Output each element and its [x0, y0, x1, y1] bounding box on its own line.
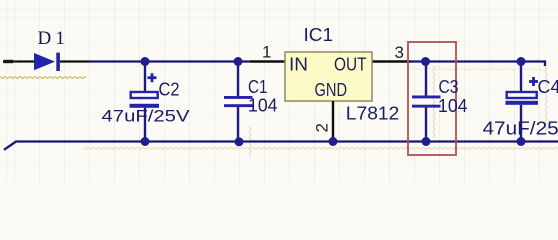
IC1 pin 2 (GND)	[332, 101, 334, 142]
capacitor C2 negative plate	[130, 104, 160, 108]
capacitor C3 bottom lead	[425, 108, 427, 142]
wavy ERC mark vertical near C3	[432, 66, 436, 138]
capacitor C4 top lead	[520, 62, 522, 92]
regulator IC1 body	[285, 52, 372, 101]
svg-text:C1: C1	[248, 77, 268, 97]
highlight box around C3	[408, 42, 456, 155]
diode D1 pins	[20, 60, 34, 62]
diode D1 cathode bar	[56, 53, 60, 71]
capacitor C2 top lead	[144, 62, 146, 92]
capacitor C2 positive plate (hollow)	[131, 92, 158, 98]
junction bottom C2	[141, 137, 150, 146]
svg-text:104: 104	[248, 96, 278, 116]
wire top rail right segment	[410, 62, 545, 67]
svg-text:47uF/25V: 47uF/25V	[483, 119, 558, 139]
junction top C2	[141, 57, 150, 66]
junction top C1	[234, 57, 243, 66]
capacitor C3 plate upper	[412, 96, 441, 99]
wavy ERC mark under top-right net	[408, 68, 546, 72]
junction bottom C3	[422, 137, 431, 146]
capacitor C2 bottom lead	[144, 108, 146, 142]
svg-text:IC1: IC1	[304, 25, 334, 45]
svg-text:104: 104	[438, 96, 468, 116]
wavy ERC mark vertical right of C1 bottom	[248, 126, 252, 156]
svg-text:OUT: OUT	[334, 55, 367, 75]
svg-text:D1: D1	[38, 28, 70, 49]
svg-text:2: 2	[313, 123, 332, 132]
svg-text:1: 1	[262, 43, 271, 62]
capacitor C4 negative plate	[506, 101, 539, 105]
IC1 pin 1 (IN)	[250, 60, 285, 62]
junction top C3	[421, 57, 430, 66]
wavy ERC mark under diode net	[0, 76, 86, 80]
junction bottom C4	[517, 137, 526, 146]
wavy ERC mark under bottom rail	[84, 147, 558, 151]
wire top rail left stub	[3, 60, 21, 62]
capacitor C4 positive plate (hollow)	[507, 92, 537, 98]
wire bottom rail	[4, 142, 558, 150]
junction bottom IC1 GND	[329, 137, 338, 146]
junction bottom C1	[235, 137, 244, 146]
wavy ERC mark vertical at right net end	[544, 66, 548, 135]
svg-text:C2: C2	[159, 80, 180, 100]
IC1 pin 3 (OUT)	[372, 60, 411, 62]
capacitor C1 plate lower	[224, 104, 253, 107]
capacitor C4 plus sign	[529, 80, 538, 83]
capacitor C3 plate lower	[412, 105, 441, 108]
capacitor C2 plus sign	[148, 76, 157, 79]
svg-text:3: 3	[395, 43, 404, 62]
background grid	[0, 0, 558, 183]
svg-text:C4: C4	[538, 77, 558, 97]
capacitor C1 bottom lead	[237, 107, 239, 142]
wire top rail (diode to IC)	[90, 60, 251, 62]
svg-text:L7812: L7812	[346, 104, 400, 124]
svg-text:GND: GND	[315, 80, 348, 100]
capacitor C1 plate upper	[224, 96, 253, 99]
svg-text:47uF/25V: 47uF/25V	[102, 107, 191, 126]
capacitor C3 top lead	[425, 62, 427, 96]
svg-text:IN: IN	[289, 55, 308, 75]
diode D1 triangle	[34, 53, 55, 70]
capacitor C4 bottom lead	[520, 105, 522, 142]
junction top C4	[517, 57, 526, 66]
capacitor C1 top lead	[237, 62, 239, 97]
svg-text:C3: C3	[439, 77, 459, 97]
